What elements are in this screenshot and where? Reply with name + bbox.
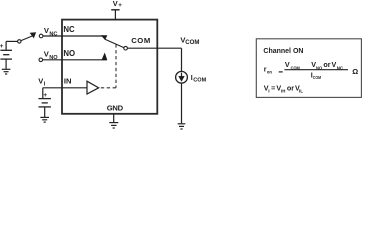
svg-text:=: = xyxy=(271,84,275,93)
dashed control line vertical xyxy=(115,44,117,88)
battery VI plate short xyxy=(42,102,48,104)
wire V+ to box xyxy=(114,10,116,20)
switch pivot circle xyxy=(18,40,21,43)
formula r_on xyxy=(264,60,358,81)
terminal VNC xyxy=(39,34,43,38)
ground (VI source) xyxy=(40,117,49,122)
switch blade arrowhead xyxy=(30,33,36,38)
switch contact NO (triangle tip up) xyxy=(102,53,107,60)
svg-text:+: + xyxy=(43,92,47,99)
battery VI plate long top xyxy=(39,98,51,100)
svg-text:IN: IN xyxy=(64,77,72,86)
driver buffer A1 xyxy=(87,81,99,94)
label V_I xyxy=(38,77,45,88)
wire battery to switch pivot xyxy=(6,40,18,42)
svg-text:+: + xyxy=(118,2,122,9)
battery plate long top xyxy=(0,49,12,51)
svg-text:GND: GND xyxy=(107,104,124,113)
switch pole blade xyxy=(105,39,124,47)
switch contact NC (triangle tip down) xyxy=(101,36,107,40)
battery VI plate long bottom xyxy=(39,106,51,108)
dashed control line horizontal xyxy=(99,87,116,89)
svg-text:COM: COM xyxy=(313,75,321,81)
switch pole circle xyxy=(124,46,128,50)
svg-text:+: + xyxy=(0,43,4,50)
battery stem xyxy=(5,41,7,50)
svg-text:or: or xyxy=(287,84,294,93)
V+ terminal bar xyxy=(111,9,119,11)
terminal VNO xyxy=(39,58,43,62)
formula V_I condition xyxy=(264,84,303,95)
svg-text:NC: NC xyxy=(63,25,75,34)
svg-text:V: V xyxy=(285,60,290,69)
battery VI stem to ground xyxy=(44,107,46,117)
battery stem to ground xyxy=(5,59,7,69)
svg-text:NO: NO xyxy=(316,65,322,71)
battery plate short xyxy=(3,54,9,56)
source VNC/VNO battery xyxy=(0,41,18,68)
formula box xyxy=(256,39,361,98)
svg-text:COM: COM xyxy=(193,78,206,84)
wire VNC to NC contact xyxy=(43,35,105,37)
svg-text:I: I xyxy=(268,89,270,95)
ground (ICOM) xyxy=(178,124,186,129)
wire VNO to NO contact xyxy=(43,59,107,61)
source VI battery xyxy=(39,88,51,117)
svg-text:COM: COM xyxy=(131,36,151,45)
wire COM down to current source xyxy=(181,48,183,71)
battery plate long bottom xyxy=(0,58,12,60)
label V_NC xyxy=(44,26,58,37)
wire COM out of box xyxy=(157,47,182,49)
wire IN to driver xyxy=(43,87,87,89)
svg-text:NC: NC xyxy=(337,65,344,71)
fraction bar xyxy=(284,69,348,71)
svg-text:or: or xyxy=(323,60,330,69)
wire GND pin to ground xyxy=(113,114,115,122)
svg-text:V: V xyxy=(113,0,118,8)
ground (VNC/VNO source) xyxy=(2,69,11,74)
label I_COM xyxy=(191,75,207,84)
wire current source to ground xyxy=(181,83,183,123)
svg-text:NO: NO xyxy=(63,49,75,58)
svg-text:I: I xyxy=(44,82,46,88)
battery VI stem xyxy=(42,88,44,99)
IC box U1 xyxy=(62,20,157,114)
current source ICOM xyxy=(176,71,188,83)
V+ label xyxy=(113,0,123,9)
svg-text:IL: IL xyxy=(299,89,303,95)
svg-text:COM: COM xyxy=(291,65,300,71)
ground (GND pin) xyxy=(109,123,118,128)
svg-text:on: on xyxy=(267,71,272,76)
switch blade with arrow xyxy=(21,36,33,41)
svg-text:Ω: Ω xyxy=(352,67,358,76)
svg-text:COM: COM xyxy=(185,39,199,46)
wire COM inside box xyxy=(127,47,157,49)
label V_COM xyxy=(180,36,199,46)
svg-text:IH: IH xyxy=(281,89,286,95)
svg-text:Channel ON: Channel ON xyxy=(263,48,303,55)
label V_NO xyxy=(44,49,58,60)
